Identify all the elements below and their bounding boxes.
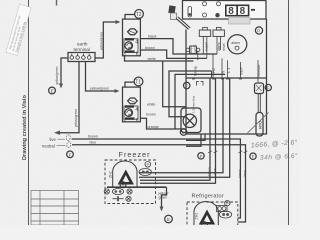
wire hook T1 [125, 82, 134, 87]
lamp connector brackets [197, 82, 204, 86]
mains brown wire [72, 135, 241, 149]
mains cord entry [42, 62, 79, 158]
board terminal label Lamp [193, 65, 198, 76]
freezer feed wire brown [140, 78, 212, 180]
relay box 2 (refrigerator compressor) [123, 87, 141, 124]
connector marks on board top [192, 78, 242, 80]
sheet right border [288, 0, 290, 225]
seven-segment display 88 [226, 5, 255, 17]
freezer feed wire blue [140, 78, 217, 183]
mains blue wire [72, 140, 246, 148]
earth terminal block [68, 42, 95, 62]
bottom-left title-block table [31, 191, 79, 226]
lamp sub-box [181, 108, 201, 133]
top tick mark [56, 0, 58, 6]
screw 2 [76, 56, 80, 60]
compressor node fridge [202, 222, 208, 228]
start relay 2 inner box [124, 106, 138, 119]
wire black relay1 pin4 to panel [140, 34, 217, 54]
temperature sensor connector [248, 83, 269, 136]
circled P freezer [145, 162, 151, 168]
lamp switch [186, 44, 200, 60]
board terminal label PH2 [211, 54, 216, 78]
chassis E circle freezer [165, 215, 173, 223]
wire orange relay2 to board [140, 74, 225, 129]
terminal screw A [203, 2, 207, 6]
fridge feed verticals lower [238, 149, 247, 223]
earth wire to chassis E [49, 58, 68, 94]
motor starter symbol 1 [125, 42, 133, 50]
node L circled [180, 129, 187, 136]
fuse F freezer feed [198, 153, 204, 159]
earth wire up to relay1 [95, 20, 121, 58]
screw 3 [82, 56, 86, 60]
fuse F circle [67, 151, 74, 158]
label P circled [255, 27, 262, 34]
earth conductor into cord [58, 62, 79, 133]
interior lamp [183, 114, 196, 127]
wire white relay1 pin3 to board [125, 56, 194, 107]
compressor dome freezer [113, 161, 137, 188]
super button [199, 27, 210, 58]
thermostat T2 circle [125, 10, 143, 20]
overload protector 2 [128, 98, 138, 104]
terminal slot left [188, 7, 192, 18]
connector breaks fridge pair [239, 151, 248, 153]
live connector loop [66, 134, 71, 141]
overload protector 1 [128, 29, 138, 35]
wire brown relay1 pin6 to panel [140, 46, 206, 59]
chassis E circle [49, 87, 56, 94]
board bottom jogs [186, 134, 205, 146]
wire hook T2 [125, 15, 135, 20]
annotation pointer [248, 113, 269, 134]
sensor stem [257, 94, 259, 113]
terminal screw D filled [215, 13, 219, 17]
board terminal labels N L [221, 58, 232, 78]
control board enclosure [186, 19, 267, 134]
minus mark [251, 9, 255, 11]
freezer return wire 1 [139, 78, 223, 173]
terminal screw B [217, 2, 221, 6]
display bezel bar [229, 18, 251, 25]
thermostat T1 circle [125, 77, 143, 87]
Refrigerator compartment [187, 194, 238, 232]
fuse F sensor [265, 84, 271, 90]
freezer return wire 2 [139, 78, 230, 177]
lamp holder fridge [219, 211, 231, 218]
thermostat box fridge [217, 206, 228, 212]
circled P fridge [225, 201, 230, 206]
connector breaks freezer pair [208, 151, 217, 153]
alarm sounder [228, 35, 247, 54]
start relay 1 inner box [124, 39, 138, 53]
fuse F fridge feed [250, 153, 256, 159]
mains terminal block [183, 1, 267, 20]
stamp top-left [6, 4, 32, 55]
compressor node [120, 182, 126, 188]
defrost capacitor [113, 196, 124, 201]
lamp holder freezer [139, 169, 151, 176]
alarm reset button [213, 27, 226, 54]
motor starter symbol 2 [125, 109, 133, 117]
cable to control box [176, 17, 190, 29]
screw 1 [70, 56, 74, 60]
wire brown to board mid [146, 71, 212, 117]
screw 4 [87, 56, 91, 60]
evaporator triangle [118, 170, 134, 185]
sensor bulb [256, 113, 263, 137]
Freezer compartment [104, 150, 155, 203]
compressor dome fridge [194, 202, 218, 225]
earth wire down + to relay2 [74, 62, 120, 128]
board terminal label REF [239, 62, 244, 78]
heater chain [104, 189, 109, 194]
sheet left border [28, 0, 30, 225]
relay box 1 (freezer compressor) [123, 19, 141, 58]
mains inlet component (dark) [168, 5, 190, 29]
evaporator triangle fridge [199, 210, 215, 225]
neutral connector loop [66, 141, 71, 148]
fuse F on board left [184, 82, 190, 88]
board terminal label Sensor [256, 60, 261, 82]
terminal screw C [203, 13, 207, 17]
freezer earth wire [107, 187, 172, 223]
